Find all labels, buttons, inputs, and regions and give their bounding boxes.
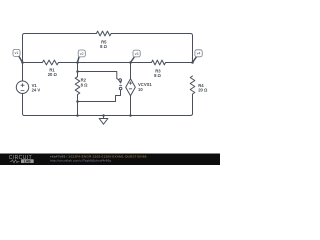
svg-text:8 Ω: 8 Ω xyxy=(154,73,161,78)
svg-text:v4: v4 xyxy=(197,52,201,56)
svg-text:10: 10 xyxy=(138,87,143,92)
svg-text:LAB: LAB xyxy=(24,159,31,163)
svg-text:http://circuitlab.com/c/7kgb8j: http://circuitlab.com/c/7kgb8j3cbnd/4r66… xyxy=(50,159,111,163)
svg-text:8 Ω: 8 Ω xyxy=(100,44,107,49)
svg-text:8 Ω: 8 Ω xyxy=(81,82,88,87)
svg-text:20 Ω: 20 Ω xyxy=(48,72,58,77)
svg-text:v3: v3 xyxy=(135,52,139,56)
svg-text:24 V: 24 V xyxy=(32,88,41,93)
svg-text:v2: v2 xyxy=(80,52,84,56)
svg-text:20 Ω: 20 Ω xyxy=(198,87,208,92)
svg-text:v1: v1 xyxy=(15,51,19,55)
